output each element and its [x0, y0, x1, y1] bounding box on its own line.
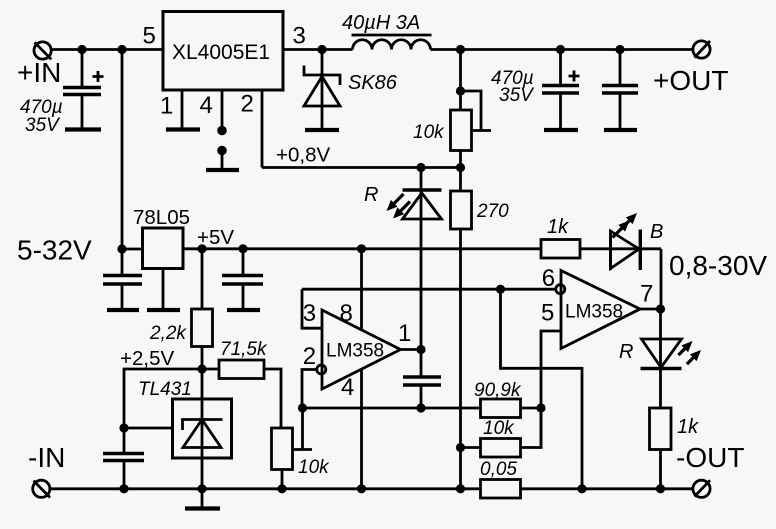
pin 2 — [241, 90, 263, 168]
svg-text:+OUT: +OUT — [653, 65, 728, 96]
svg-text:LM358: LM358 — [565, 302, 623, 323]
svg-text:8: 8 — [340, 300, 353, 327]
node +2,5V — [120, 347, 207, 374]
svg-text:78L05: 78L05 — [133, 206, 190, 229]
resistor 0,05 (shunt) — [480, 459, 521, 498]
svg-text:35V: 35V — [499, 85, 535, 106]
wire +5V rail — [183, 226, 541, 249]
pin 2 bubble — [317, 365, 326, 374]
svg-text:R: R — [364, 184, 378, 206]
node (TL431 anode) — [197, 484, 206, 493]
node (cap ref) — [119, 484, 128, 493]
svg-text:2,2k: 2,2k — [149, 323, 187, 344]
wire bottom rail right — [521, 487, 694, 490]
svg-text:0,05: 0,05 — [480, 459, 517, 480]
resistor 1k (LED B) — [541, 216, 580, 258]
ground (pin 4) — [206, 168, 239, 172]
wire ref to TL431 — [124, 427, 173, 430]
resistor 270 — [451, 168, 510, 490]
ground (main) — [201, 489, 204, 508]
IC XL4005E1 — [163, 12, 283, 91]
ground (cap +5V) — [227, 308, 260, 312]
svg-text:71,5k: 71,5k — [220, 339, 268, 360]
node (pot 10k) — [277, 484, 286, 493]
svg-text:1k: 1k — [677, 416, 699, 438]
svg-text:B: B — [650, 221, 663, 243]
wire pin 4 — [360, 370, 363, 489]
node (cap out 2) — [615, 45, 624, 54]
svg-text:10k: 10k — [413, 122, 445, 143]
node (270 column / 10k tap) — [456, 443, 465, 452]
LED R (optocoupler top) — [364, 168, 442, 350]
node (270 column) — [456, 484, 465, 493]
LED R (output indicator) — [619, 309, 701, 408]
ground (78L05) — [147, 308, 180, 312]
resistor 1k (output) — [650, 408, 700, 489]
capacitor (TL431 ref) — [103, 428, 144, 489]
ground (pin 1) — [166, 127, 200, 131]
svg-text:5-32V: 5-32V — [17, 235, 92, 266]
svg-text:90,9k: 90,9k — [474, 380, 522, 401]
node (diode SK86) — [317, 45, 326, 54]
wire bottom rail left — [50, 487, 481, 490]
svg-text:5: 5 — [143, 23, 156, 50]
wire +0,8V line — [262, 144, 461, 168]
svg-text:0,8-30V: 0,8-30V — [669, 250, 767, 281]
node (pin6 drop) — [577, 484, 586, 493]
svg-text:40µH 3A: 40µH 3A — [342, 12, 420, 34]
wire pin3/pin6 net — [302, 288, 556, 291]
svg-text:+IN: +IN — [17, 57, 61, 88]
svg-text:4: 4 — [341, 374, 354, 401]
wire +2,5V to cap branch — [124, 369, 202, 428]
node (cap 470u out) — [556, 45, 565, 54]
resistor 71,5k — [202, 339, 281, 428]
capacitor (op1 output) — [403, 350, 441, 409]
svg-text:SK86: SK86 — [348, 72, 398, 94]
node (pin 7) — [656, 304, 665, 313]
terminal -IN — [28, 442, 65, 498]
capacitor 470u 35V output — [491, 50, 580, 129]
svg-text:270: 270 — [476, 201, 509, 222]
node (pin2 column) — [298, 403, 307, 412]
ground (SK86) — [305, 128, 339, 132]
svg-text:R: R — [619, 341, 633, 363]
terminal +OUT — [653, 41, 728, 96]
LED B — [580, 213, 663, 309]
wire 5-32V drop — [17, 50, 122, 266]
svg-text:2: 2 — [241, 91, 254, 118]
node (cap bottom) — [416, 403, 425, 412]
terminal +IN — [17, 42, 61, 88]
resistor 2,2k — [149, 249, 213, 369]
IC TL431 — [138, 369, 232, 489]
node (78L05 input) — [117, 244, 126, 253]
svg-text:3: 3 — [293, 23, 306, 50]
terminal -OUT — [676, 442, 744, 497]
pin 6 bubble — [556, 285, 565, 294]
ground (input cap) — [65, 127, 101, 131]
node on top rail (input cap) — [77, 45, 86, 54]
svg-text:TL431: TL431 — [138, 379, 192, 400]
svg-text:5: 5 — [541, 300, 554, 327]
capacitor (+5V rail) — [222, 249, 263, 308]
svg-text:2: 2 — [303, 343, 316, 370]
resistor 10k (divider) — [461, 408, 542, 457]
node (90,9k / pin5) — [536, 403, 545, 412]
node (pin6 net) — [496, 285, 505, 294]
svg-text:+0,8V: +0,8V — [276, 144, 330, 167]
svg-text:6: 6 — [542, 265, 555, 292]
inductor L1 40uH 3A — [342, 12, 432, 50]
svg-text:4: 4 — [200, 92, 213, 119]
wire pin 1 out — [401, 348, 422, 351]
potentiometer 10k (op amp 1) — [272, 408, 331, 489]
svg-text:+2,5V: +2,5V — [120, 347, 174, 370]
node (+5V op amp supply) — [357, 244, 366, 253]
op-amp U1A LM358 — [303, 300, 412, 401]
svg-text:LM358: LM358 — [326, 341, 384, 362]
svg-text:XL4005E1: XL4005E1 — [172, 41, 270, 64]
wire pin 3 — [302, 289, 322, 328]
resistor 90,9k — [474, 380, 541, 418]
svg-text:3: 3 — [303, 300, 316, 327]
diode SK86 (schottky) — [304, 50, 398, 129]
node (TL431 ref) — [119, 423, 128, 432]
svg-text:-IN: -IN — [28, 442, 65, 473]
node (pot column top) — [456, 45, 465, 54]
node (op1 output) — [416, 345, 425, 354]
pin 4 — [200, 90, 227, 168]
wire pin 8 supply — [360, 249, 363, 330]
wire feedback line y408 — [303, 407, 481, 410]
node (+5V a) — [197, 244, 206, 253]
wire top rail left — [51, 48, 163, 51]
wire pin3 to node — [283, 48, 353, 51]
capacitor (5-32V rail) — [103, 249, 142, 308]
svg-text:1: 1 — [160, 93, 173, 120]
wire top rail right — [431, 48, 694, 51]
op-amp U1B LM358 — [541, 265, 653, 349]
node (+5V b) — [238, 244, 247, 253]
svg-text:7: 7 — [640, 281, 653, 308]
svg-text:-OUT: -OUT — [676, 442, 744, 473]
ground (cap 470u out) — [544, 128, 578, 132]
svg-text:1k: 1k — [547, 216, 569, 238]
node (+0,8V / LED column) — [416, 163, 425, 172]
IC 78L05 — [122, 206, 190, 308]
wire pin 2 — [302, 370, 317, 409]
svg-text:1: 1 — [398, 320, 411, 347]
node (+0,8V / pot column) — [456, 163, 465, 172]
potentiometer 10k (output divider) — [413, 50, 491, 168]
svg-text:35V: 35V — [25, 115, 61, 136]
pin 1 — [160, 90, 182, 128]
svg-text:10k: 10k — [298, 457, 330, 478]
wire pin6 drop — [501, 289, 583, 489]
svg-text:10k: 10k — [483, 418, 515, 439]
node (op1 pin 4) — [357, 484, 366, 493]
wire pin 7 out — [640, 308, 661, 311]
wire pin 5 — [541, 331, 561, 448]
node on top rail (5-32V drop) — [117, 45, 126, 54]
capacitor C1 470u 35V input — [20, 50, 104, 137]
node (1k output) — [656, 484, 665, 493]
ground (cap 5-32V) — [107, 308, 139, 312]
capacitor output 2 — [602, 50, 638, 129]
ground (cap out 2) — [604, 128, 637, 132]
